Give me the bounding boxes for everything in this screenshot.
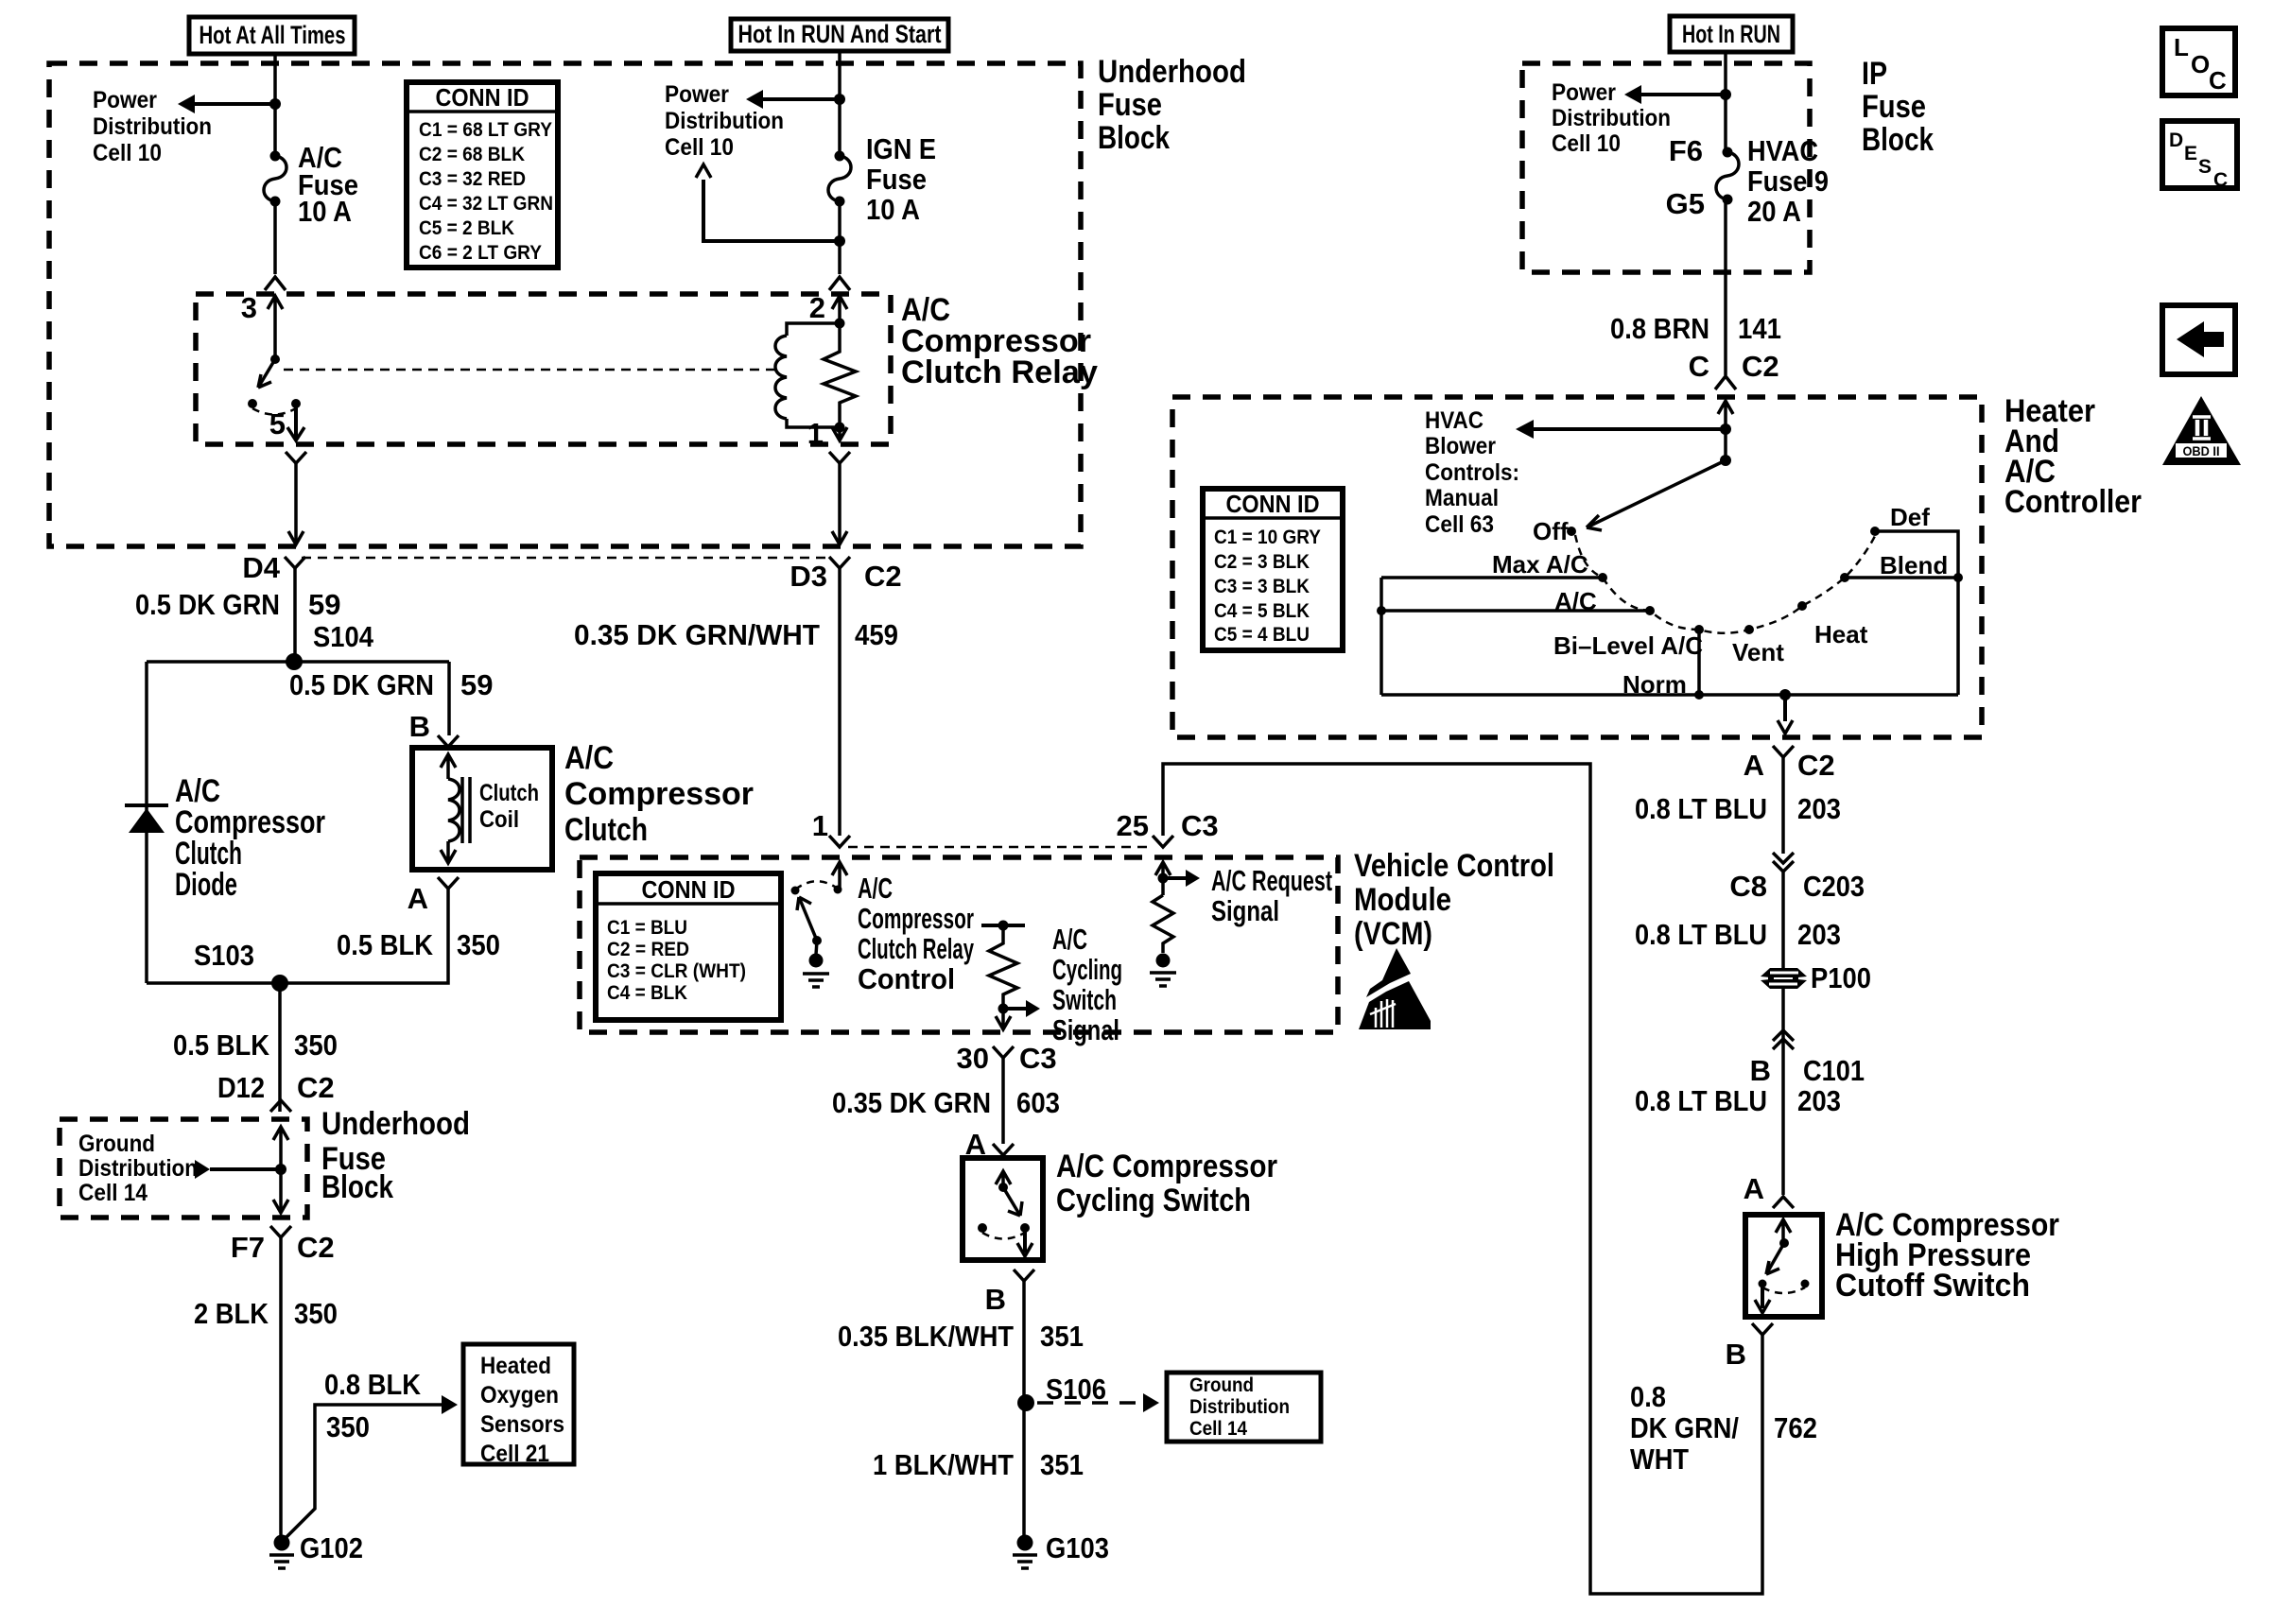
svg-text:C: C	[2209, 66, 2227, 95]
connector caret B	[1014, 1270, 1034, 1281]
svg-text:G102: G102	[300, 1531, 363, 1564]
svg-text:Control: Control	[858, 962, 955, 995]
svg-text:C2 = 68 BLK: C2 = 68 BLK	[419, 144, 525, 165]
svg-text:59: 59	[308, 588, 340, 621]
IP Fuse Block dashed box	[1522, 63, 1810, 272]
left contact dot	[791, 887, 800, 895]
svg-text:0.5 BLK: 0.5 BLK	[173, 1028, 270, 1062]
svg-text:Cutoff Switch: Cutoff Switch	[1835, 1268, 2030, 1304]
wire F7 to G102	[279, 1237, 283, 1536]
svg-text:Bi–Level A/C: Bi–Level A/C	[1553, 631, 1703, 660]
connector caret A	[438, 877, 459, 889]
svg-text:A/C: A/C	[564, 740, 614, 776]
svg-text:Distribution: Distribution	[665, 108, 784, 134]
HP switch arm with arrowhead	[1766, 1243, 1784, 1274]
svg-text:Controls:: Controls:	[1425, 459, 1519, 486]
svg-text:Clutch: Clutch	[564, 812, 648, 848]
legend icon: DESC box	[2162, 121, 2237, 188]
connector D4 caret	[285, 557, 305, 568]
wire L-shape with up arrow (power distribution)	[703, 180, 840, 241]
svg-text:0.5 DK GRN: 0.5 DK GRN	[135, 588, 280, 621]
connector caret above relay (pin2)	[829, 277, 850, 290]
svg-text:Cell 63: Cell 63	[1425, 511, 1494, 538]
svg-text:3: 3	[241, 291, 257, 324]
svg-text:C1 = 68 LT GRY: C1 = 68 LT GRY	[419, 119, 552, 141]
A/C Compressor High Pressure Cutoff Switch box	[1745, 1215, 1822, 1317]
header tag: Hot In RUN And Start	[731, 19, 948, 51]
svg-text:Clutch Relay: Clutch Relay	[901, 354, 1098, 390]
svg-text:0.5 BLK: 0.5 BLK	[337, 928, 434, 961]
svg-text:D: D	[2169, 130, 2183, 151]
svg-text:O: O	[2191, 50, 2210, 78]
svg-text:Ground: Ground	[1189, 1374, 1254, 1396]
VCM pin 1 entry arrow	[832, 862, 847, 890]
wire relay to D3 with arrowhead	[838, 463, 842, 543]
wire relay to D4 with arrowhead at box edge	[294, 463, 298, 543]
node: junction to second power dist arrow	[834, 235, 845, 247]
svg-text:C4 = 5 BLK: C4 = 5 BLK	[1214, 600, 1310, 622]
svg-text:HVAC: HVAC	[1747, 134, 1818, 167]
svg-text:C2: C2	[1742, 350, 1779, 383]
pin 1 exit arrow	[832, 427, 847, 441]
wire C101 to HP switch	[1781, 1051, 1785, 1195]
coil core bars	[462, 777, 470, 843]
svg-text:2 BLK: 2 BLK	[194, 1297, 269, 1330]
svg-text:C4 = BLK: C4 = BLK	[607, 982, 687, 1004]
splice pack P100	[1761, 968, 1807, 977]
wire D3 to VCM pin 1	[838, 568, 842, 836]
connector caret A	[1773, 1197, 1794, 1208]
wire clutch-coil branch down	[447, 662, 451, 735]
wire fuse to C/C2	[1726, 199, 1727, 375]
node: junction col3 power dist	[1720, 89, 1731, 100]
svg-text:Clutch: Clutch	[479, 780, 539, 806]
svg-text:0.5 DK GRN: 0.5 DK GRN	[289, 668, 434, 701]
legend icon: LOC box	[2162, 28, 2235, 95]
svg-text:0.8 BLK: 0.8 BLK	[324, 1368, 422, 1401]
svg-text:Distribution: Distribution	[78, 1155, 198, 1182]
box: Heated Oxygen Sensors Cell 21	[463, 1344, 574, 1464]
fuse: IGN E Fuse 10 A	[835, 151, 845, 162]
in-line connector C203 (double chevron down)	[1773, 853, 1794, 872]
svg-text:A/C: A/C	[1554, 587, 1597, 615]
svg-text:(VCM): (VCM)	[1354, 916, 1432, 952]
node + diagonal wiper arm to Off	[1720, 455, 1731, 466]
box: Ground Distribution Cell 14	[1167, 1373, 1321, 1442]
svg-text:OBD II: OBD II	[2183, 443, 2220, 458]
controller entry arrow	[1718, 401, 1733, 460]
svg-text:C8: C8	[1729, 870, 1767, 903]
svg-text:Block: Block	[321, 1169, 393, 1205]
svg-text:Block: Block	[1862, 122, 1934, 158]
svg-text:Power: Power	[1552, 79, 1616, 106]
wire S103 to D12	[278, 983, 282, 1112]
svg-text:0.8: 0.8	[1630, 1380, 1666, 1413]
svg-text:D4: D4	[242, 551, 280, 584]
svg-text:A: A	[1744, 1172, 1764, 1205]
svg-text:G5: G5	[1666, 187, 1705, 220]
cycling switch sense: top bar + node	[981, 924, 1025, 927]
svg-text:A/C: A/C	[1052, 923, 1087, 956]
svg-text:Distribution: Distribution	[1189, 1396, 1290, 1418]
mode contact dots	[1598, 573, 1607, 582]
svg-text:Cell 10: Cell 10	[665, 134, 734, 161]
wire A down to S103 row	[147, 889, 448, 983]
svg-text:DK GRN/: DK GRN/	[1630, 1411, 1739, 1444]
svg-text:0.8 LT BLU: 0.8 LT BLU	[1635, 792, 1767, 825]
svg-text:59: 59	[460, 668, 493, 701]
wire S104 horizontal	[147, 660, 449, 664]
CONN ID table (underhood fuse block)	[407, 82, 558, 268]
svg-text:Cycling: Cycling	[1052, 953, 1122, 986]
svg-text:Power: Power	[665, 81, 729, 108]
svg-text:D12: D12	[217, 1071, 265, 1104]
svg-text:603: 603	[1016, 1086, 1060, 1119]
svg-text:F6: F6	[1669, 134, 1703, 167]
relay coil branch	[787, 323, 840, 336]
CONN ID table (heater controller)	[1203, 489, 1343, 650]
svg-text:0.35 DK GRN: 0.35 DK GRN	[832, 1086, 991, 1119]
svg-text:Fuse 9: Fuse 9	[1747, 164, 1829, 198]
node S106	[1017, 1394, 1034, 1411]
svg-text:Def: Def	[1890, 503, 1930, 531]
exit arrow (HP switch B)	[1761, 1284, 1764, 1308]
wire pin30 to cycling switch	[1001, 1058, 1005, 1144]
node + wire to ground dist arrow	[275, 1164, 286, 1175]
svg-text:CONN ID: CONN ID	[436, 83, 529, 112]
legend icon: back arrow box	[2162, 305, 2235, 374]
dashed arc between contacts	[252, 408, 296, 415]
svg-text:Heated: Heated	[480, 1353, 551, 1379]
A/C Compressor Clutch box	[412, 748, 552, 870]
svg-text:Hot In RUN And Start: Hot In RUN And Start	[738, 20, 942, 48]
cycling sense resistor	[989, 925, 1017, 1009]
relay switch arm with arrowhead	[258, 359, 275, 388]
svg-text:C6 = 2 LT GRY: C6 = 2 LT GRY	[419, 242, 542, 264]
ground symbol (request signal)	[1156, 954, 1171, 968]
A/C Compressor Cycling Switch box	[963, 1158, 1043, 1260]
svg-text:Coil: Coil	[479, 806, 519, 833]
svg-text:0.8 LT BLU: 0.8 LT BLU	[1635, 1084, 1767, 1117]
svg-text:Underhood: Underhood	[1098, 54, 1246, 90]
node Bi-Level on bus	[1694, 690, 1704, 700]
wire D4 to S104	[293, 568, 297, 662]
svg-text:350: 350	[294, 1297, 338, 1330]
entry arrow into ground box	[273, 1127, 288, 1212]
svg-text:Signal: Signal	[1052, 1013, 1119, 1046]
svg-text:203: 203	[1797, 1084, 1841, 1117]
svg-text:Fuse: Fuse	[1098, 87, 1162, 123]
svg-text:1: 1	[807, 417, 824, 450]
svg-text:Hot In RUN: Hot In RUN	[1682, 20, 1780, 48]
request signal resistor	[1153, 895, 1173, 953]
Heater And A/C Controller dashed box	[1172, 397, 1982, 737]
svg-text:Fuse: Fuse	[866, 163, 927, 196]
svg-text:C3: C3	[1019, 1042, 1057, 1075]
connector caret C/C2	[1715, 376, 1736, 389]
wire: 762 return loop to VCM pin 25	[1163, 764, 1762, 1594]
svg-text:350: 350	[457, 928, 500, 961]
svg-text:D3: D3	[789, 560, 827, 593]
svg-text:C101: C101	[1803, 1054, 1865, 1087]
HP switch pivot dot	[1779, 1238, 1789, 1248]
svg-text:Power: Power	[93, 87, 157, 113]
svg-text:351: 351	[1040, 1320, 1084, 1353]
svg-text:Cycling Switch: Cycling Switch	[1056, 1183, 1251, 1218]
connector caret below relay box	[286, 452, 306, 463]
svg-text:Blend: Blend	[1880, 551, 1948, 579]
clutch coil inside: entry arrow	[441, 754, 456, 779]
pin 3 entry arrow	[268, 296, 283, 359]
svg-text:0.8 LT BLU: 0.8 LT BLU	[1635, 918, 1767, 951]
svg-text:459: 459	[855, 618, 898, 651]
svg-text:S103: S103	[194, 939, 254, 972]
svg-text:B: B	[1726, 1338, 1746, 1371]
rotary switch dashed arc	[1575, 535, 1875, 633]
fuse: HVAC Fuse 9 20 A	[1723, 147, 1733, 158]
svg-text:A: A	[408, 882, 428, 915]
node S104	[286, 653, 303, 670]
svg-text:Vent: Vent	[1732, 638, 1784, 666]
svg-text:CONN ID: CONN ID	[1226, 490, 1320, 518]
svg-text:B: B	[985, 1283, 1006, 1316]
svg-text:S: S	[2198, 156, 2212, 178]
svg-text:Cell 10: Cell 10	[1552, 130, 1621, 157]
svg-text:Switch: Switch	[1052, 983, 1117, 1016]
connector caret above relay box	[265, 277, 286, 290]
svg-text:C5 = 2 BLK: C5 = 2 BLK	[419, 217, 514, 239]
svg-text:C1 = BLU: C1 = BLU	[607, 917, 687, 939]
cycling switch contacts	[978, 1223, 987, 1233]
svg-text:2: 2	[809, 291, 825, 324]
legend icon: OBD II triangle	[2162, 396, 2241, 465]
svg-text:C3: C3	[1181, 809, 1219, 842]
wire: ignition feed col2	[838, 51, 842, 156]
relay coil windings	[775, 336, 787, 419]
wire + arrow to Power Distribution (col2)	[762, 97, 840, 101]
cycling switch entry arrow	[996, 1171, 1011, 1187]
svg-text:Compressor: Compressor	[564, 776, 754, 812]
svg-text:HVAC: HVAC	[1425, 407, 1484, 434]
svg-text:WHT: WHT	[1630, 1443, 1689, 1476]
svg-text:A: A	[1744, 749, 1764, 782]
HP switch entry arrow	[1776, 1219, 1791, 1243]
cycling switch arm with arrowhead	[1003, 1187, 1020, 1216]
connector caret below relay (pin1)	[829, 452, 850, 463]
svg-text:C203: C203	[1803, 870, 1865, 903]
svg-text:351: 351	[1040, 1448, 1084, 1481]
svg-text:C3 = CLR (WHT): C3 = CLR (WHT)	[607, 960, 746, 982]
svg-text:Sensors: Sensors	[480, 1411, 564, 1438]
thin dashed connector line D4-D3	[302, 557, 831, 560]
svg-text:Clutch Relay: Clutch Relay	[858, 932, 974, 965]
coil windings	[448, 779, 460, 841]
svg-text:1: 1	[812, 809, 828, 842]
svg-text:C4 = 32 LT GRN: C4 = 32 LT GRN	[419, 193, 553, 215]
svg-text:S106: S106	[1046, 1373, 1106, 1406]
Off contact + label	[1567, 527, 1576, 536]
connector caret F7	[270, 1226, 291, 1237]
svg-text:Cell 10: Cell 10	[93, 140, 162, 166]
svg-text:Vehicle Control: Vehicle Control	[1354, 848, 1554, 884]
svg-text:C2: C2	[297, 1231, 335, 1264]
relay dashed box: A/C Compressor Clutch Relay	[196, 294, 891, 444]
svg-text:Cell 14: Cell 14	[1189, 1418, 1247, 1440]
svg-text:141: 141	[1738, 312, 1781, 345]
Underhood ground dashed box	[60, 1119, 307, 1218]
svg-text:A/C Request: A/C Request	[1211, 864, 1332, 897]
svg-text:Distribution: Distribution	[1552, 105, 1671, 131]
wire fuse to relay	[273, 201, 277, 274]
wire A to C8	[1781, 757, 1785, 854]
connector caret A/C2	[1773, 746, 1794, 757]
node + arrow right (A/C request signal)	[1158, 873, 1169, 884]
fuse: A/C Fuse 10 A	[270, 151, 281, 162]
svg-text:Cell 21: Cell 21	[480, 1441, 549, 1467]
svg-text:Heat: Heat	[1814, 620, 1868, 648]
svg-text:Max A/C: Max A/C	[1492, 550, 1588, 579]
Blend line + label	[1845, 576, 1958, 579]
svg-text:0.35 BLK/WHT: 0.35 BLK/WHT	[838, 1320, 1014, 1353]
in-line connector C101 (double chevron up)	[1773, 1030, 1794, 1049]
svg-text:Off: Off	[1533, 517, 1569, 545]
coil exit arrow	[441, 841, 456, 863]
wire fuse to relay pin 2	[838, 201, 842, 274]
svg-text:Controller: Controller	[2004, 484, 2142, 520]
node relay coil bottom	[835, 423, 845, 433]
svg-text:C: C	[2213, 169, 2228, 191]
svg-text:C2: C2	[864, 560, 902, 593]
svg-text:IP: IP	[1862, 56, 1887, 92]
connector D3 caret	[829, 557, 850, 568]
ground G102	[274, 1535, 290, 1551]
svg-text:Cell 14: Cell 14	[78, 1180, 147, 1206]
node relay coil top	[835, 319, 845, 329]
connector caret D12	[270, 1100, 291, 1112]
A/C line + node + label	[1381, 609, 1650, 613]
Underhood Fuse Block dashed box	[49, 63, 1081, 546]
wire P100 to C101	[1781, 989, 1785, 1051]
dashed arc between contacts	[982, 1233, 1025, 1239]
svg-text:C3 = 32 RED: C3 = 32 RED	[419, 168, 526, 190]
node + arrow to HVAC Blower Controls	[1720, 423, 1731, 435]
HP switch contacts	[1759, 1280, 1767, 1288]
svg-text:B: B	[1750, 1054, 1771, 1087]
pivot dot + stem to ground	[812, 936, 822, 945]
node: junction col1 power dist	[269, 98, 281, 110]
svg-text:A/C: A/C	[858, 872, 893, 905]
svg-text:C2: C2	[1797, 749, 1835, 782]
svg-text:25: 25	[1117, 809, 1149, 842]
svg-text:F7: F7	[231, 1231, 265, 1264]
svg-text:Diode: Diode	[175, 867, 237, 903]
svg-text:Manual: Manual	[1425, 485, 1499, 511]
clutch relay control: right contact dot	[834, 886, 842, 894]
svg-text:G103: G103	[1046, 1531, 1109, 1564]
svg-text:5: 5	[269, 407, 286, 441]
svg-text:Blower: Blower	[1425, 433, 1496, 459]
node: junction col2 power dist	[834, 94, 845, 105]
svg-text:Distribution: Distribution	[93, 113, 212, 140]
wire: battery feed col1	[273, 54, 277, 156]
ground symbol (clutch relay control)	[809, 954, 824, 968]
svg-text:Ground: Ground	[78, 1131, 155, 1157]
dashed arc between contacts	[1762, 1287, 1805, 1293]
svg-text:10 A: 10 A	[298, 195, 352, 228]
svg-text:203: 203	[1797, 918, 1841, 951]
svg-text:Oxygen: Oxygen	[480, 1382, 559, 1408]
wire C8 to P100	[1781, 872, 1785, 968]
wire + arrow to Power Distribution (col3)	[1640, 93, 1726, 96]
pin 5 exit arrow	[294, 404, 298, 438]
connector caret B	[1752, 1323, 1773, 1335]
svg-text:20 A: 20 A	[1747, 195, 1801, 228]
connector caret VCM pin 1	[829, 836, 850, 847]
relay contacts	[248, 399, 257, 408]
controller exit arrow	[1783, 695, 1787, 721]
thin dashed connector line pin1-pin25	[848, 846, 1154, 849]
wire down + exit arrow at VCM bottom	[996, 1009, 1011, 1029]
svg-text:350: 350	[326, 1410, 370, 1443]
svg-text:P100: P100	[1811, 961, 1871, 994]
svg-text:Underhood: Underhood	[321, 1106, 470, 1142]
exit arrow at ground box bottom	[273, 1200, 288, 1213]
pin 25 entry arrow	[1155, 862, 1171, 895]
Max A/C line + label	[1381, 576, 1603, 579]
mechanical linkage dashed line to coil	[284, 369, 777, 371]
svg-text:Signal: Signal	[1211, 894, 1279, 927]
svg-text:Block: Block	[1098, 120, 1170, 156]
header tag: Hot In RUN	[1670, 16, 1793, 52]
wire: run feed col3	[1724, 52, 1727, 152]
svg-text:E: E	[2184, 143, 2197, 164]
svg-text:Hot At All Times: Hot At All Times	[200, 21, 346, 49]
dashed arc to left contact	[795, 881, 838, 890]
diode A/C Compressor Clutch Diode	[125, 803, 168, 807]
svg-text:762: 762	[1774, 1411, 1817, 1444]
svg-text:B: B	[409, 710, 430, 743]
svg-text:C2: C2	[297, 1071, 335, 1104]
svg-text:C2 = RED: C2 = RED	[607, 939, 689, 960]
connector caret A	[993, 1144, 1014, 1155]
svg-text:L: L	[2174, 33, 2189, 61]
svg-text:C: C	[1689, 350, 1709, 383]
node S103	[271, 975, 288, 992]
header tag: Hot At All Times	[189, 17, 355, 54]
relay coil resistor zigzag	[824, 323, 856, 427]
wire B to S106	[1022, 1281, 1026, 1536]
cycling switch pivot dot	[998, 1183, 1008, 1192]
svg-text:203: 203	[1797, 792, 1841, 825]
svg-text:C3 = 3 BLK: C3 = 3 BLK	[1214, 576, 1310, 597]
svg-text:Module: Module	[1354, 882, 1451, 918]
svg-text:S104: S104	[313, 620, 374, 653]
bottom bus	[1381, 693, 1958, 697]
ESD sensitive icon	[1366, 948, 1411, 997]
svg-text:C1 = 10 GRY: C1 = 10 GRY	[1214, 527, 1321, 548]
wire + arrow to Power Distribution (col1)	[194, 102, 275, 106]
CONN ID table (VCM)	[596, 873, 781, 1020]
svg-text:CONN ID: CONN ID	[642, 875, 736, 904]
VCM dashed box	[580, 857, 1338, 1032]
switch arm with arrowhead (clutch relay control)	[799, 897, 817, 941]
node Blend/Def junction	[1953, 573, 1963, 582]
exit arrow (cycling switch B)	[1023, 1228, 1027, 1253]
wire diode branch down	[145, 662, 148, 983]
svg-text:1 BLK/WHT: 1 BLK/WHT	[873, 1448, 1014, 1481]
relay switch pivot dot	[270, 354, 280, 364]
svg-text:0.35 DK GRN/WHT: 0.35 DK GRN/WHT	[574, 618, 820, 651]
